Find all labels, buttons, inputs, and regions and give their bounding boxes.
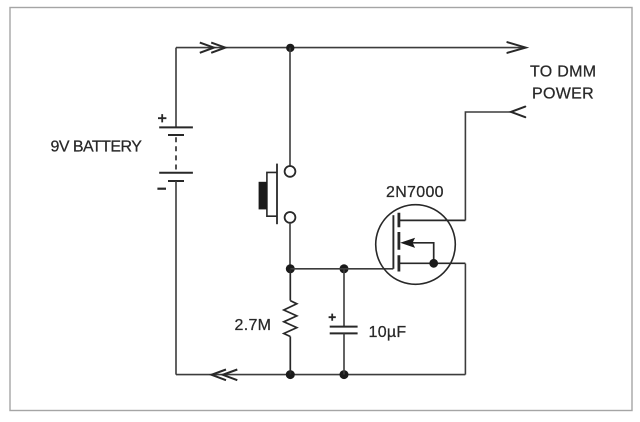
junction node capacitor top	[340, 264, 349, 273]
wire drain to DMM return	[465, 112, 511, 221]
wire switch lower lead	[289, 223, 291, 269]
body arrowhead (filled, points to channel)	[400, 238, 415, 248]
channel bar (dashed)	[397, 213, 400, 272]
junction node resistor/bottom rail	[286, 370, 295, 379]
arrow input from DMM (open arrowhead)	[511, 107, 525, 118]
junction node capacitor/bottom rail	[340, 370, 349, 379]
transistor 2N7000 N-MOSFET	[376, 205, 466, 285]
svg-text:POWER: POWER	[532, 85, 594, 102]
wire gate net horizontal	[290, 268, 393, 270]
wire switch upper lead	[289, 48, 291, 167]
capacitor 10uF (polarized)	[330, 269, 358, 375]
flow chevrons on bottom rail (pointing left)	[212, 370, 238, 381]
junction node top (switch tap)	[286, 44, 294, 52]
arrow output to DMM (open arrowhead)	[507, 42, 525, 53]
battery plus mark	[158, 114, 166, 122]
flow chevrons on top rail	[200, 43, 226, 53]
wire bottom rail	[176, 374, 465, 376]
junction node source/body	[429, 259, 438, 268]
junction node gate net	[286, 264, 295, 273]
battery 9V	[159, 127, 193, 181]
capacitor plus mark	[329, 314, 336, 321]
svg-text:TO DMM: TO DMM	[530, 64, 596, 81]
svg-text:2N7000: 2N7000	[386, 184, 444, 201]
source lead	[399, 262, 466, 264]
wire top rail from battery + to output arrow	[176, 47, 525, 49]
pushbutton switch	[259, 164, 296, 225]
svg-text:10µF: 10µF	[369, 324, 407, 341]
gate bar	[392, 215, 394, 269]
drain lead	[399, 219, 466, 221]
wire battery negative lead down to bottom rail	[175, 181, 177, 375]
battery minus mark	[157, 188, 166, 190]
wire battery positive lead	[175, 48, 177, 128]
body connection with arrow	[412, 243, 434, 263]
svg-text:2.7M: 2.7M	[235, 317, 272, 334]
svg-text:9V BATTERY: 9V BATTERY	[51, 139, 143, 156]
resistor 2.7M	[284, 269, 297, 375]
wire source down to bottom rail	[464, 264, 466, 375]
